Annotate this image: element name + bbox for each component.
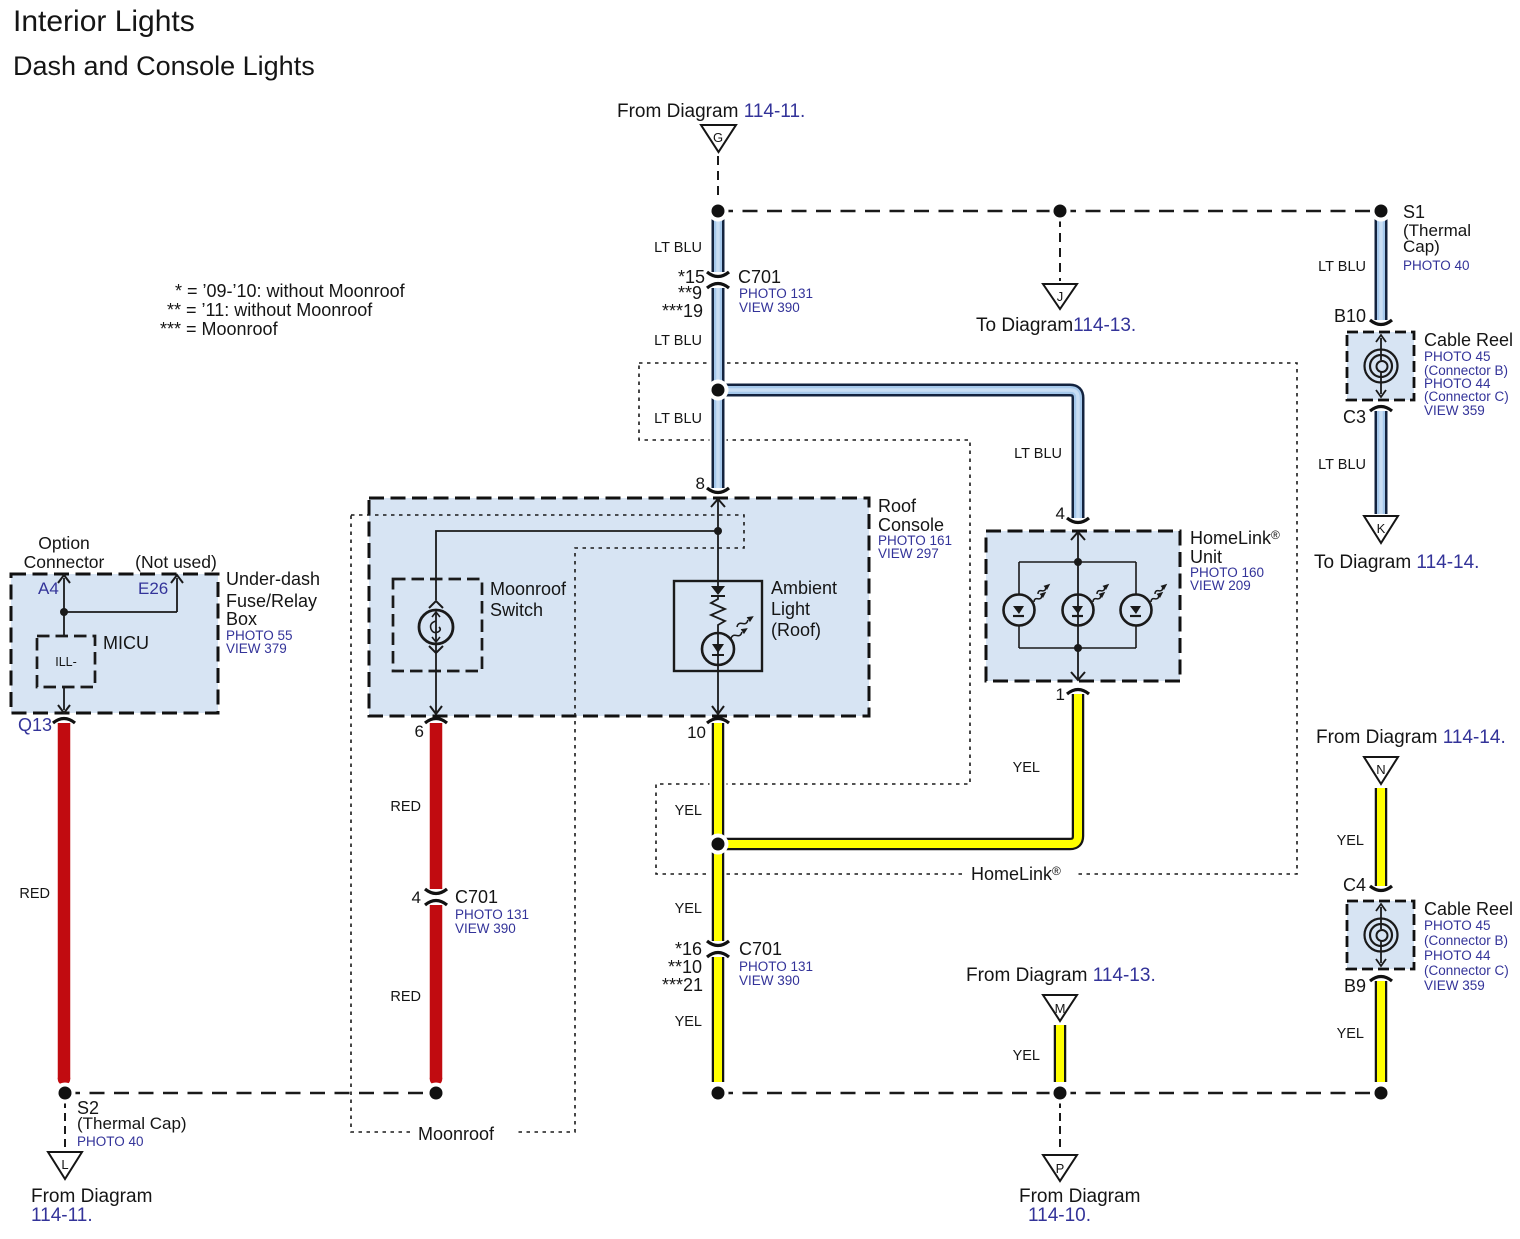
ambient light emission arrows [729,614,755,642]
svg-text:RED: RED [390,799,421,815]
HomeLink LED 1 [1004,595,1035,626]
under-dash: E26 arrow up [176,578,178,612]
svg-text:VIEW 390: VIEW 390 [455,921,516,936]
LAYER3: dashed bus lines [65,156,1381,1152]
node (bottom bus, B9 wire) [1371,1083,1392,1104]
svg-text:Fuse/Relay: Fuse/Relay [226,591,317,611]
svg-text:PHOTO 44: PHOTO 44 [1424,948,1491,963]
node: HomeLink top junction [1074,558,1082,566]
LAYER6: connector caps [53,272,1392,981]
node A (top bus left) [708,201,729,222]
wire LT BLU: node S1 down to B10 [1373,211,1390,320]
wire: dashed drop from top bus to J [1059,218,1061,281]
svg-text:YEL: YEL [675,901,702,917]
svg-text:VIEW 359: VIEW 359 [1424,978,1485,993]
svg-text:C701: C701 [455,887,498,907]
svg-text:Console: Console [878,515,944,535]
node S1 (thermal cap) [1371,201,1392,222]
svg-text:HomeLink®: HomeLink® [971,864,1061,884]
cable reel (upper) internals [1380,338,1382,360]
svg-text:C701: C701 [738,267,781,287]
svg-text:YEL: YEL [1337,833,1364,849]
node (bottom bus, red wire) [426,1083,447,1104]
wire: bottom dashed bus S2 to moonroof node [65,1092,436,1095]
svg-text:P: P [1056,1161,1065,1176]
connector triangle K [1364,516,1398,543]
wire: bottom dashed bus yellow node to node B9 [718,1092,1381,1095]
node (bottom bus, yellow wire) [708,1083,729,1104]
node (top bus, J drop) [1050,201,1071,222]
moonroof switch S3 dashed box [393,579,482,671]
svg-text:10: 10 [687,723,706,742]
pin 10 cap [707,719,729,724]
svg-text:From Diagram: From Diagram [1019,1186,1140,1207]
under-dash: wire A4 arrow up [63,578,65,612]
svg-text:4: 4 [1056,504,1065,523]
wire LT BLU: node B across and down to HomeLink pin 4 [718,390,1078,518]
svg-text:A4: A4 [38,579,59,598]
svg-text:PHOTO 40: PHOTO 40 [1403,258,1470,273]
svg-text:(Roof): (Roof) [771,620,821,640]
svg-text:VIEW 390: VIEW 390 [739,300,800,315]
wire YEL: HomeLink pin 1 down and across to yellow node [726,694,1078,844]
svg-text:(Thermal Cap): (Thermal Cap) [77,1114,187,1133]
pin B10 cap [1370,320,1392,325]
svg-text:Ambient: Ambient [771,578,837,598]
svg-text:G: G [713,130,723,145]
wire RED: Q13 down to S2 node [56,723,73,1079]
LAYER2: fine dotted regions [351,363,1297,1132]
pin C4 cap [1370,886,1392,891]
pin 6 cap [425,719,447,724]
wire YEL: C701 down to bottom node [710,957,727,1082]
svg-text:VIEW 390: VIEW 390 [739,973,800,988]
svg-text:VIEW 209: VIEW 209 [1190,578,1251,593]
node C (yellow tee) [708,834,729,855]
moonroof switch chevron down [429,646,443,653]
svg-text:LT BLU: LT BLU [1318,457,1366,473]
svg-text:* = ’09-’10: without Moonroof: * = ’09-’10: without Moonroof [175,281,406,301]
svg-text:Cable Reel: Cable Reel [1424,899,1513,919]
wire: dashed drop from bottom bus to P [1059,1100,1061,1152]
pin Q13 cap [53,719,75,724]
svg-text:4: 4 [412,888,421,907]
svg-text:PHOTO 45: PHOTO 45 [1424,349,1491,364]
LAYER8: triangles [48,125,1398,1181]
wire: dashed drop from G to node A [717,156,719,208]
svg-text:B10: B10 [1334,306,1366,326]
pin 1 cap [1067,690,1089,695]
roof console box [369,498,869,716]
under-dash fuse/relay box [11,574,218,713]
wire LT BLU: C701 down to roof console pin 8 [710,288,727,488]
HomeLink LED 3 [1121,595,1152,626]
ambient light diode [711,586,725,595]
svg-text:114-11.: 114-11. [31,1205,93,1226]
Moonroof dotted region [351,515,744,1132]
pin B9 cap [1370,977,1392,982]
svg-text:K: K [1377,521,1386,536]
HomeLink: center line arrows [1077,533,1079,679]
LAYER5: colored wires [58,211,1381,1085]
svg-text:(Connector C): (Connector C) [1424,963,1509,978]
svg-text:Moonroof: Moonroof [418,1124,495,1144]
svg-text:Q13: Q13 [18,715,52,735]
pin 4 cap [1067,518,1089,523]
svg-text:VIEW 359: VIEW 359 [1424,403,1485,418]
svg-text:MICU: MICU [103,633,149,653]
svg-text:YEL: YEL [1013,1048,1040,1064]
HomeLink LED ladder rails [1019,561,1136,563]
svg-text:*** = Moonroof: *** = Moonroof [160,319,279,339]
svg-text:Unit: Unit [1190,547,1222,567]
LAYER7: node dots [55,201,1392,1104]
svg-text:Cable Reel: Cable Reel [1424,330,1513,350]
svg-text:N: N [1376,762,1385,777]
wire RED: C701 down to bottom node [428,905,445,1079]
svg-text:YEL: YEL [675,803,702,819]
LAYER4: thin internal lines and symbols [37,335,1398,966]
svg-text:Connector: Connector [24,552,105,572]
svg-text:To Diagram114-13.: To Diagram114-13. [976,315,1136,336]
svg-text:Dash and Console Lights: Dash and Console Lights [13,51,315,81]
svg-text:VIEW 379: VIEW 379 [226,641,287,656]
wire LT BLU: node A down to C701 [710,211,727,272]
HomeLink unit U1 box [986,531,1180,681]
svg-text:*16: *16 [675,939,702,959]
connector C701 blue upper/lower caps [707,272,729,277]
svg-text:Box: Box [226,609,257,629]
svg-text:From Diagram 114-14.: From Diagram 114-14. [1316,727,1506,748]
moonroof switch bulb circle [419,610,453,644]
svg-text:Cap): Cap) [1403,237,1440,256]
ambient light LED circle [702,633,734,665]
svg-text:VIEW 297: VIEW 297 [878,546,939,561]
svg-text:***19: ***19 [662,301,703,321]
roof console: pin 8 arrow up into box [717,500,719,531]
svg-text:C4: C4 [1343,875,1366,895]
HomeLink LED 2 [1063,595,1094,626]
moonroof switch chevron up [429,601,443,608]
connector triangle P [1043,1155,1077,1181]
svg-text:(Connector B): (Connector B) [1424,933,1508,948]
svg-text:6: 6 [415,722,424,741]
svg-text:114-10.: 114-10. [1028,1205,1091,1226]
under-dash: wire across to E26 [64,611,177,613]
wire: switch to pin 6 arrow down [435,644,437,712]
svg-text:LT BLU: LT BLU [654,411,702,427]
svg-text:PHOTO 131: PHOTO 131 [455,907,529,922]
svg-text:C3: C3 [1343,407,1366,427]
svg-text:S1: S1 [1403,202,1425,222]
svg-text:1: 1 [1056,685,1065,704]
wire: junction to MICU [63,612,65,636]
svg-text:C701: C701 [739,939,782,959]
svg-text:***21: ***21 [662,975,703,995]
cable reel (lower) internals [1380,907,1382,929]
svg-text:PHOTO 131: PHOTO 131 [739,959,813,974]
svg-text:YEL: YEL [1337,1026,1364,1042]
moonroof switch bulb filament [435,613,437,641]
pin 8 cap [707,488,729,493]
wire YEL: M down to bottom bus [1052,1025,1069,1082]
svg-text:ILL-: ILL- [55,655,77,669]
svg-text:LT BLU: LT BLU [1318,259,1366,275]
svg-text:L: L [61,1157,68,1172]
node: HomeLink bottom junction [1074,644,1082,652]
wire YEL: B9 down to bottom node [1373,981,1390,1082]
wire: dashed drop from S2 node to L [64,1100,66,1150]
cable reel box (lower) [1347,901,1414,969]
svg-text:(Connector C): (Connector C) [1424,389,1509,404]
node S2 (thermal cap) [55,1083,76,1104]
svg-text:Interior Lights: Interior Lights [13,5,195,38]
svg-text:**10: **10 [668,957,702,977]
svg-text:Switch: Switch [490,600,543,620]
pin C3 cap [1370,407,1392,412]
node B (blue tee) [708,380,729,401]
svg-text:From Diagram 114-13.: From Diagram 114-13. [966,965,1156,986]
cable reel box (upper) [1347,332,1414,400]
label: moonroof region [413,1122,514,1143]
svg-text:Under-dash: Under-dash [226,569,320,589]
svg-text:J: J [1057,289,1064,304]
svg-text:To Diagram 114-14.: To Diagram 114-14. [1314,552,1479,573]
svg-text:HomeLink®: HomeLink® [1190,528,1280,548]
svg-text:PHOTO 131: PHOTO 131 [739,286,813,301]
connector triangle J [1043,284,1077,309]
connector triangle M [1043,995,1077,1021]
wire RED: moonroof switch pin 6 down to C701 [428,723,445,889]
svg-text:YEL: YEL [1013,760,1040,776]
LAYER1: box fills and borders [11,332,1414,969]
connector triangle G [701,125,736,152]
svg-text:E26: E26 [138,579,168,598]
svg-text:PHOTO 40: PHOTO 40 [77,1134,144,1149]
node (bottom bus, M drop) [1050,1083,1071,1104]
wire YEL: roof console pin 10 down to C701 [710,723,727,941]
svg-text:YEL: YEL [675,1014,702,1030]
svg-text:M: M [1055,1001,1066,1016]
svg-text:LT BLU: LT BLU [1014,446,1062,462]
svg-text:From Diagram 114-11.: From Diagram 114-11. [617,101,805,122]
svg-text:B9: B9 [1344,976,1366,996]
wire LT BLU: C3 down to K [1373,411,1390,514]
svg-text:Option: Option [38,533,90,553]
connector triangle L [48,1152,82,1179]
wire: ambient light to pin 10 arrow down [717,665,719,712]
svg-text:LT BLU: LT BLU [654,333,702,349]
ambient light DS1 box [674,581,762,671]
svg-text:PHOTO 45: PHOTO 45 [1424,918,1491,933]
svg-text:**9: **9 [678,283,702,303]
wire: top dashed bus node A to node S1 [718,210,1381,213]
connector C701 red upper/lower caps [425,889,447,894]
svg-text:Moonroof: Moonroof [490,579,567,599]
svg-text:Roof: Roof [878,496,917,516]
wire: junction across to moonroof switch [436,531,718,600]
svg-text:LT BLU: LT BLU [654,240,702,256]
label: HomeLink region [966,864,1074,884]
svg-text:8: 8 [696,474,705,493]
svg-text:RED: RED [390,989,421,1005]
wire YEL: N down to C4 [1373,788,1390,886]
wire: junction down into ambient light [717,531,719,586]
MICU dashed box [37,636,95,687]
connector C701 yellow upper/lower caps [707,941,729,946]
connector triangle N [1364,757,1398,784]
svg-text:(Not used): (Not used) [135,552,217,572]
wire: MICU to pin Q13 arrow down [63,687,65,710]
svg-text:** = ’11: without Moonroof: ** = ’11: without Moonroof [167,300,373,320]
node: under-dash junction [60,608,68,616]
svg-text:Light: Light [771,599,810,619]
HomeLink dotted region [639,363,1297,874]
ambient light resistor R [711,596,725,633]
svg-text:RED: RED [19,886,50,902]
svg-text:From Diagram: From Diagram [31,1186,152,1207]
node: roof console junction [714,527,722,535]
